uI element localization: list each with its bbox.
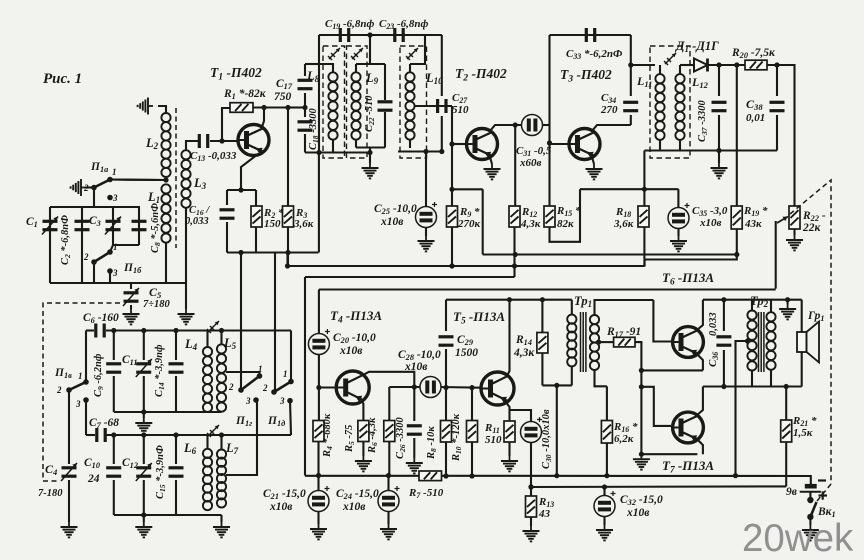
capacitor: [298, 122, 313, 130]
wire R8 bottom: [445, 442, 447, 476]
wire C35 to ground: [677, 229, 679, 237]
wire C26 bottom: [413, 438, 415, 458]
wire C12 top: [143, 435, 145, 464]
wire junction row: [110, 178, 166, 181]
wire Tp1 primary bottom lead: [571, 366, 573, 385]
svg-text:1: 1: [113, 242, 118, 252]
svg-text:R1 *-82к: R1 *-82к: [223, 88, 267, 101]
wire T1 emitter down: [241, 154, 258, 190]
svg-text:82к: 82к: [557, 218, 574, 230]
transformer Tp1 core: [581, 312, 586, 372]
wire L10 top lead: [409, 64, 411, 72]
svg-text:R8 -10к: R8 -10к: [426, 426, 438, 460]
ground below C26: [406, 458, 423, 473]
capacitor: [169, 364, 184, 372]
label C23: [379, 18, 429, 31]
ground below R13: [523, 526, 540, 541]
ground below C35: [670, 236, 687, 251]
wire R1 node to C17/C18 tap: [290, 106, 305, 108]
resistor: [638, 206, 649, 227]
svg-text:510: 510: [452, 104, 469, 116]
resistor: [731, 206, 742, 229]
inductor: [181, 150, 190, 208]
svg-text:х10в: х10в: [342, 501, 365, 513]
wire detector ground bus: [644, 149, 777, 151]
junction: [628, 62, 633, 67]
transistor: [673, 327, 704, 358]
label R11 value: [485, 434, 502, 446]
wire C35 top: [677, 189, 679, 207]
svg-text:R17 -91: R17 -91: [606, 326, 641, 339]
label R7: [408, 487, 444, 500]
svg-text:1: 1: [112, 167, 117, 177]
ground below C24: [380, 524, 397, 539]
wire П1а-1 to coil tap: [110, 178, 166, 181]
wire C3 branch: [112, 207, 114, 245]
wire tank2 feed: [369, 35, 371, 64]
label C17 value: [274, 91, 292, 103]
svg-text:3: 3: [75, 399, 81, 409]
junction: [111, 432, 224, 437]
label L9: [365, 71, 379, 86]
transistor: [238, 125, 269, 156]
ground below C5: [123, 309, 140, 324]
resistor: [467, 421, 478, 443]
wire L12 top lead: [679, 65, 681, 74]
junction: [554, 383, 559, 388]
wire AF bus to C20: [318, 290, 320, 334]
wire box left lower: [226, 222, 228, 253]
label R12 value: [520, 218, 541, 230]
svg-text:L10: L10: [425, 71, 443, 86]
wire to C25: [425, 152, 427, 208]
svg-text:П1а: П1а: [90, 161, 108, 174]
ferrite core dashed: [175, 108, 177, 248]
ground MW tank: [135, 418, 152, 433]
capacitor: [132, 221, 147, 229]
svg-text:L12: L12: [691, 75, 709, 90]
capacitor: [220, 210, 235, 218]
svg-text:L4: L4: [184, 337, 198, 352]
label C10 value: [87, 473, 100, 485]
wire T2 base string: [451, 106, 453, 189]
label Tp2: [750, 294, 769, 309]
wire T7 emitter return: [641, 453, 697, 455]
wire C15 top: [175, 435, 177, 464]
svg-text:270: 270: [600, 104, 618, 116]
wire to C30: [510, 410, 532, 422]
wire box left upper: [226, 190, 228, 205]
wire L4 top: [206, 331, 208, 348]
svg-text:R10 *-120к: R10 *-120к: [451, 413, 463, 462]
wire C4 to ground: [68, 480, 70, 522]
junction: [721, 297, 790, 302]
svg-text:3: 3: [112, 193, 118, 203]
wire C11 bottom: [143, 376, 145, 412]
svg-text:С17: С17: [276, 78, 293, 91]
wire output top bus: [703, 299, 802, 301]
label R15: [556, 205, 581, 218]
wire MW tank bottom: [114, 411, 222, 413]
wire C25 to ground: [425, 228, 427, 237]
svg-text:С9 -6,2пф: С9 -6,2пф: [93, 353, 105, 397]
svg-text:R19 *: R19 *: [743, 205, 768, 218]
label C12: [122, 457, 138, 470]
label C25: [374, 203, 417, 216]
wire diode to R20: [708, 64, 746, 66]
label R13 value: [538, 508, 551, 520]
junction: [745, 338, 750, 343]
svg-text:R4 *-680к: R4 *-680к: [322, 413, 334, 458]
wire C7 left: [86, 434, 95, 436]
transformer Tp2 core: [759, 312, 764, 372]
label C9: [93, 353, 105, 397]
junction: [238, 187, 243, 192]
svg-text:С8 *-5,6пФ: С8 *-5,6пФ: [150, 203, 162, 253]
wire Tp1 bottom bus: [542, 384, 571, 386]
svg-text:С10: С10: [84, 457, 100, 470]
wire C2 branch: [81, 207, 83, 283]
resistor: [447, 206, 458, 227]
wire L10 feed: [410, 35, 425, 64]
svg-text:L1: L1: [147, 190, 160, 205]
wire C6 to П1в-1: [85, 331, 87, 383]
wire R9 top: [451, 189, 453, 206]
resistor: [283, 206, 294, 227]
label C37: [697, 100, 709, 142]
label C29: [457, 334, 473, 347]
wire C33 top bus: [550, 34, 631, 36]
svg-text:П1б: П1б: [123, 262, 142, 275]
ground at П1а: [71, 179, 86, 196]
wire П1д-1 up to MW bus: [290, 331, 292, 382]
label L7: [225, 441, 239, 456]
switch П1г: [238, 373, 262, 403]
electrolytic capacitor: [416, 202, 438, 228]
svg-text:0,033: 0,033: [708, 312, 719, 336]
transistor: [481, 372, 514, 405]
tuning slug L9: [351, 48, 363, 60]
label R16: [613, 421, 638, 434]
label C22: [364, 95, 376, 132]
wire L9 bottom lead: [355, 140, 357, 148]
inductor: [766, 312, 775, 370]
svg-text:Тр1: Тр1: [574, 294, 592, 309]
wire Tp1 sec top to T6 base: [595, 300, 654, 315]
svg-text:R7 -510: R7 -510: [408, 487, 444, 500]
pin 3: [75, 399, 81, 409]
junction: [423, 149, 444, 154]
wire C9 bottom: [113, 376, 115, 412]
svg-text:4,3к: 4,3к: [520, 218, 541, 230]
label R3: [295, 207, 307, 220]
wire T2 collector to C31: [490, 125, 522, 131]
ground T2 emitter: [484, 164, 501, 179]
resistor: [384, 421, 395, 442]
wire R12 bottom: [513, 227, 515, 266]
resistor: [781, 420, 792, 442]
svg-text:Т2 -П402: Т2 -П402: [455, 66, 507, 83]
electrolytic capacitor: [521, 417, 543, 443]
capacitor: [96, 324, 104, 338]
svg-text:Т5 -П13А: Т5 -П13А: [453, 309, 505, 326]
label R6: [367, 417, 379, 454]
wire bus link: [530, 486, 532, 488]
capacitor: [97, 428, 105, 442]
wire R21 top: [785, 387, 787, 421]
wire bus to ground: [185, 283, 187, 309]
wire C27 from coupling bus: [441, 35, 443, 96]
label R21: [792, 415, 817, 428]
wire box top: [227, 189, 256, 191]
variable capacitor: [136, 359, 152, 377]
svg-text:0,01: 0,01: [746, 112, 765, 124]
wire C5 to ground: [130, 305, 132, 309]
wire bias link R18: [580, 188, 678, 190]
wire T6 emitter node: [641, 369, 703, 371]
wire R8 top: [445, 388, 447, 421]
pin 3: [112, 268, 118, 278]
variable capacitor: [42, 217, 58, 235]
svg-text:R14: R14: [515, 334, 532, 347]
wire C7 to П1в-3: [85, 400, 87, 435]
variable capacitor: [123, 288, 139, 306]
wire Tp1 primary top lead: [571, 300, 573, 315]
label L11: [636, 74, 652, 89]
resistor: [537, 333, 548, 354]
svg-text:Д1 -Д1Г: Д1 -Д1Г: [675, 39, 719, 54]
svg-text:П1в: П1в: [54, 367, 72, 380]
svg-text:3,6к: 3,6к: [293, 218, 314, 230]
label C5: [149, 285, 162, 300]
pin 1: [283, 369, 288, 379]
svg-text:С30 -10,0х10в: С30 -10,0х10в: [541, 409, 553, 469]
svg-text:Гр1: Гр1: [807, 310, 825, 323]
label C21: [263, 488, 306, 501]
wire C17-C18 middle: [304, 93, 306, 117]
tuning slug L4/L5: [207, 321, 219, 333]
junction: [512, 263, 517, 268]
label C24: [336, 488, 379, 501]
label C33: [566, 48, 623, 61]
pin 2: [83, 252, 89, 262]
wire collector node: [389, 386, 414, 388]
label R21 value: [793, 427, 813, 439]
wire tank2 top: [356, 63, 385, 65]
svg-text:2: 2: [56, 385, 62, 395]
wire L12 to diode: [680, 64, 694, 66]
label C29 value: [455, 347, 478, 359]
label T4 type: [330, 308, 382, 325]
wire R16 bottom: [606, 443, 608, 476]
resistor: [526, 496, 537, 517]
label L3: [193, 176, 207, 191]
wire C21 to ground: [317, 512, 319, 525]
svg-text:х10в: х10в: [404, 361, 427, 373]
label T6 type: [662, 270, 714, 287]
inductor: [567, 315, 576, 367]
wire R18 top: [643, 151, 645, 207]
ground of output stage: [633, 454, 650, 469]
svg-text:х10в: х10в: [699, 217, 722, 229]
wire down to П1г-2: [240, 253, 242, 391]
wire bottom bus of T1 stage: [227, 251, 319, 253]
wire L5 tap to П1г-1: [226, 372, 260, 376]
wire MW tank top bus: [106, 329, 291, 331]
shield box L9: [347, 46, 368, 158]
inductor: [161, 113, 170, 177]
svg-text:3: 3: [112, 268, 118, 278]
wire tank2 gnd stub: [143, 515, 145, 522]
wire L3 bottom down: [185, 208, 187, 283]
svg-text:L2: L2: [145, 136, 159, 151]
battery 9в: [800, 486, 821, 492]
junction: [261, 105, 290, 110]
svg-text:С32 -15,0: С32 -15,0: [620, 494, 663, 507]
label C4 value: [38, 488, 63, 499]
svg-text:R5 -75: R5 -75: [344, 425, 356, 453]
svg-text:С14 *-3,9пф: С14 *-3,9пф: [154, 344, 166, 397]
label C7: [89, 417, 119, 430]
junction: [449, 263, 454, 268]
capacitor: [106, 468, 121, 476]
resistor: [251, 206, 262, 227]
svg-text:П1д: П1д: [267, 415, 285, 428]
wire L5 top: [220, 331, 222, 345]
label C36 value: [708, 312, 719, 336]
capacitor: [340, 28, 348, 42]
junction: [141, 512, 146, 517]
label Вк1: [817, 506, 836, 519]
svg-text:С1: С1: [26, 216, 38, 229]
label R16 value: [614, 433, 634, 445]
wire T7 collector up: [697, 387, 703, 416]
junction: [443, 385, 474, 390]
junction: [596, 340, 601, 345]
wire bottom bus of input cap bank: [50, 282, 186, 284]
wire C36 bottom: [723, 350, 725, 387]
junction: [528, 484, 607, 489]
wire R14 top: [541, 300, 543, 333]
svg-text:1: 1: [283, 369, 288, 379]
wire R21 bottom to bus: [785, 442, 787, 486]
label R9 value: [457, 218, 481, 230]
inductor: [351, 72, 360, 139]
resistor: [504, 421, 515, 442]
inductor: [655, 74, 664, 140]
variable capacitor: [105, 217, 121, 235]
wire C31 to T3 base string: [543, 124, 550, 126]
svg-text:7-180: 7-180: [38, 488, 63, 499]
svg-text:С26 -3300: С26 -3300: [395, 417, 407, 459]
wire C30 bottom to R13: [530, 443, 532, 497]
wire T3 collector: [592, 125, 631, 131]
junction: [285, 263, 290, 268]
wire T4 base lead: [319, 386, 337, 388]
label T5 type: [453, 309, 505, 326]
wire C11 top: [143, 331, 145, 361]
svg-text:С38: С38: [746, 97, 763, 112]
wire up to R1: [222, 108, 230, 141]
wire T1 collector up: [262, 108, 264, 128]
wire AGC jog down: [482, 189, 484, 254]
junction: [547, 140, 552, 145]
label R8: [426, 426, 438, 460]
wire L10 bottom lead: [409, 140, 411, 148]
inductor: [747, 311, 756, 371]
wire L8 top lead: [319, 64, 333, 72]
wire C27 bottom: [441, 116, 443, 152]
label R2: [263, 207, 284, 220]
wire L6 top: [206, 435, 208, 449]
label R17: [606, 326, 641, 339]
junction: [774, 62, 779, 67]
junction: [367, 32, 372, 37]
resistor: [358, 421, 369, 442]
junction: [238, 250, 290, 255]
label R5: [344, 425, 356, 453]
wire Tp2 center tap to supply: [736, 341, 748, 476]
wire C20 to T4 base and R4: [318, 355, 320, 421]
label C26: [395, 417, 407, 459]
wire T3 emitter: [592, 157, 594, 164]
plus sign: [819, 491, 828, 499]
wire T6 emitter down: [697, 354, 703, 370]
label T3 type: [560, 67, 612, 84]
svg-text:270к: 270к: [457, 218, 481, 230]
wire T5 emitter to R11: [505, 401, 510, 421]
wire C18 bottom: [304, 134, 306, 153]
wire to C5: [130, 283, 132, 289]
tuning slug L6/L7: [207, 425, 219, 437]
label C38 value: [746, 112, 765, 124]
label C31 voltage: [519, 157, 542, 169]
dashed link to switch: [817, 484, 831, 501]
capacitor: [770, 102, 785, 110]
switch П1д: [271, 379, 294, 404]
wire C22 bottom lead: [384, 112, 386, 148]
wire R3 node to bus: [286, 253, 288, 267]
minus sign: [818, 479, 826, 481]
svg-text:2: 2: [83, 252, 89, 262]
svg-text:2: 2: [83, 183, 89, 193]
wire long left drop to AF bus: [304, 277, 306, 476]
capacitor: [439, 337, 454, 345]
capacitor: [716, 337, 731, 345]
shield box L10: [400, 46, 427, 158]
svg-text:Т1 -П402: Т1 -П402: [210, 65, 262, 82]
contact П1а-3: [107, 195, 113, 201]
pin 3: [279, 396, 285, 406]
wiper arrow of R22: [777, 217, 788, 224]
wire R10 bottom: [471, 442, 473, 476]
svg-text:С2 *-6,8пФ: С2 *-6,8пФ: [60, 215, 72, 265]
wire R22 wiper to AF bus: [775, 221, 777, 289]
ground below C21: [310, 524, 327, 539]
label R14: [515, 334, 532, 347]
label 9в: [786, 486, 797, 498]
label Гр1: [807, 310, 825, 323]
label T2 type: [455, 66, 507, 83]
wire L7 top: [220, 435, 222, 450]
capacitor: [395, 28, 403, 42]
wire R20 to R22 top: [767, 65, 795, 206]
label C8 value: [150, 203, 162, 253]
label C34 value: [600, 104, 618, 116]
wire T7 base lead: [641, 387, 671, 426]
svg-text:150: 150: [264, 218, 281, 230]
switch П1б: [91, 249, 113, 274]
